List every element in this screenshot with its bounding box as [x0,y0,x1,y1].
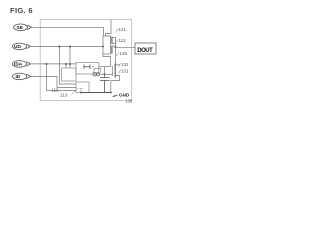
svg-text:UD: UD [14,44,21,50]
svg-text:136: 136 [125,99,133,104]
svg-text:131: 131 [121,69,129,74]
svg-text:121: 121 [119,27,127,32]
svg-text:125: 125 [120,51,128,56]
svg-text:IDA: IDA [14,62,23,68]
svg-text:132: 132 [121,62,129,67]
svg-text:SE: SE [17,25,24,31]
svg-text:ID: ID [16,74,21,80]
svg-text:113: 113 [60,93,68,98]
svg-text:112: 112 [119,38,127,43]
svg-text:DOUT: DOUT [137,48,153,54]
svg-text:GND: GND [119,92,130,97]
svg-text:FIG. 6: FIG. 6 [10,6,33,15]
svg-text:115: 115 [52,88,60,93]
